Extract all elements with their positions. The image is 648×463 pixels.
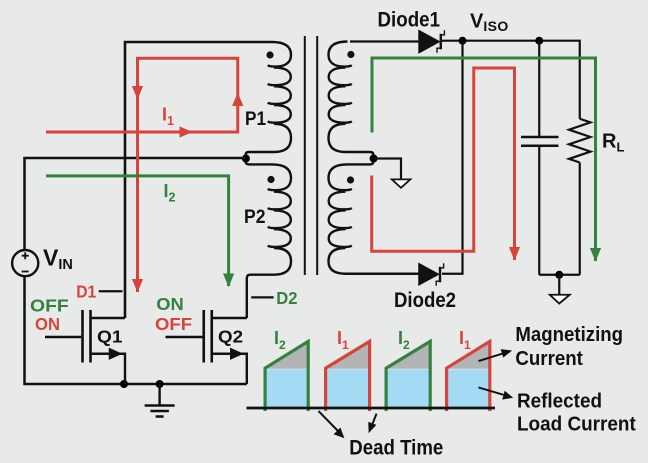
waveform pulse 1 (I2 green) — [265, 341, 308, 411]
Diode2 schottky cathode — [439, 267, 441, 283]
transistor Q1 gate lead — [45, 336, 81, 338]
ground (rail) stem — [158, 384, 160, 406]
svg-text:Magnetizing: Magnetizing — [515, 324, 623, 346]
svg-text:OFF: OFF — [155, 314, 192, 334]
P1 polarity dot — [266, 51, 273, 58]
Q2 gate plate — [202, 310, 205, 363]
transformer primary winding P2 — [246, 159, 292, 319]
transformer secondary winding S1 (upper) — [329, 42, 374, 159]
D2 tick — [251, 296, 273, 298]
capacitor branch wire bottom — [538, 146, 540, 275]
output ground stem — [558, 275, 560, 294]
Q2 source arrow — [230, 348, 244, 360]
VISO node dot 1 — [459, 37, 467, 45]
svg-text:P1: P1 — [245, 109, 266, 130]
waveform pulse 3 (I2 green) — [386, 341, 430, 411]
red secondary arrow down — [509, 247, 520, 261]
I2 arrow down (end) — [223, 274, 234, 288]
wire: Diode1 node down to Diode2 cathode — [442, 41, 463, 274]
I1 red current loop — [46, 58, 238, 292]
magnetizing arrow — [479, 353, 504, 361]
waveform pulse 2 (I1 red) — [326, 341, 370, 411]
center tap node dot — [242, 155, 250, 163]
wire: output bottom joining — [539, 274, 580, 276]
Diode2 — [419, 263, 439, 285]
wire: VISO rail — [442, 41, 580, 119]
VISO node dot 2 — [535, 37, 543, 45]
dead time arrow right — [372, 414, 377, 427]
Q2 channel plate — [210, 310, 213, 363]
transformer core — [304, 36, 306, 275]
output ground node dot — [555, 271, 563, 279]
svg-text:P2: P2 — [244, 207, 266, 228]
wire: secondary center to ground — [374, 159, 401, 180]
svg-text:D2: D2 — [276, 288, 297, 308]
I1 arrow right (bottom of loop) — [180, 126, 193, 137]
red secondary current path — [372, 68, 515, 260]
I2 green current path — [46, 176, 229, 286]
VIN minus — [22, 271, 29, 273]
Q1 channel plate — [89, 310, 92, 363]
Q2 source lead — [212, 354, 247, 384]
dead time arrow left — [319, 411, 339, 431]
RL bottom lead — [579, 163, 581, 275]
wire: Q1 drain up-left loop to P1 top — [125, 42, 272, 318]
ground (rail) bars — [145, 404, 175, 407]
waveform baseline — [247, 407, 496, 410]
S1 polarity dot — [347, 51, 354, 58]
svg-text:Dead Time: Dead Time — [349, 436, 443, 459]
rail node dot 2 — [156, 380, 164, 388]
transformer secondary winding S2 (lower) — [329, 159, 419, 274]
svg-text:Reflected: Reflected — [517, 390, 602, 412]
svg-text:Diode1: Diode1 — [378, 8, 441, 31]
transistor Q2 gate lead — [166, 336, 203, 338]
svg-text:OFF: OFF — [30, 295, 69, 315]
Q1 gate plate — [81, 310, 84, 363]
I1 arrow down (left side mid) — [132, 86, 143, 100]
svg-text:Load Current: Load Current — [517, 414, 636, 436]
Q1 drain lead — [91, 317, 126, 319]
green secondary current path — [372, 58, 596, 261]
Q1 source lead — [91, 354, 126, 384]
capacitor branch wire top — [538, 41, 540, 137]
waveform pulse 4 (I1 red) — [447, 341, 490, 411]
wire: VIN to ground rail — [25, 276, 247, 384]
VIN source circle — [12, 250, 38, 276]
D1 tick — [99, 290, 123, 292]
Diode1 — [419, 30, 440, 53]
svg-text:D1: D1 — [76, 282, 96, 302]
wire: S1 top to Diode1 — [350, 40, 419, 42]
svg-text:Q2: Q2 — [218, 327, 243, 347]
svg-text:Current: Current — [515, 348, 583, 370]
rail node dot 1 — [120, 380, 128, 388]
P2 polarity dot — [267, 176, 274, 183]
reflected arrow — [479, 387, 504, 394]
ground (secondary center, open triangle) — [392, 179, 411, 187]
secondary center node dot — [370, 155, 378, 163]
svg-text:ON: ON — [156, 294, 184, 314]
I1 arrow down (left side end) — [132, 279, 143, 293]
resistor RL zigzag — [569, 119, 591, 163]
wire: center tap to VIN — [25, 158, 246, 250]
Q2 drain lead — [212, 317, 247, 319]
svg-text:ON: ON — [35, 314, 60, 334]
transformer primary winding P1 — [246, 42, 292, 159]
ground (output, open triangle) — [550, 295, 570, 304]
Q1 source arrow — [109, 348, 123, 360]
svg-text:Diode2: Diode2 — [394, 289, 456, 312]
svg-text:Q1: Q1 — [97, 327, 123, 347]
Diode1 schottky cathode — [440, 34, 442, 50]
green secondary arrow down — [590, 248, 601, 262]
S2 polarity dot — [347, 176, 354, 183]
I1 arrow up (right side of loop) — [232, 93, 243, 107]
VIN plus — [22, 252, 29, 259]
capacitor C plates — [521, 136, 559, 139]
